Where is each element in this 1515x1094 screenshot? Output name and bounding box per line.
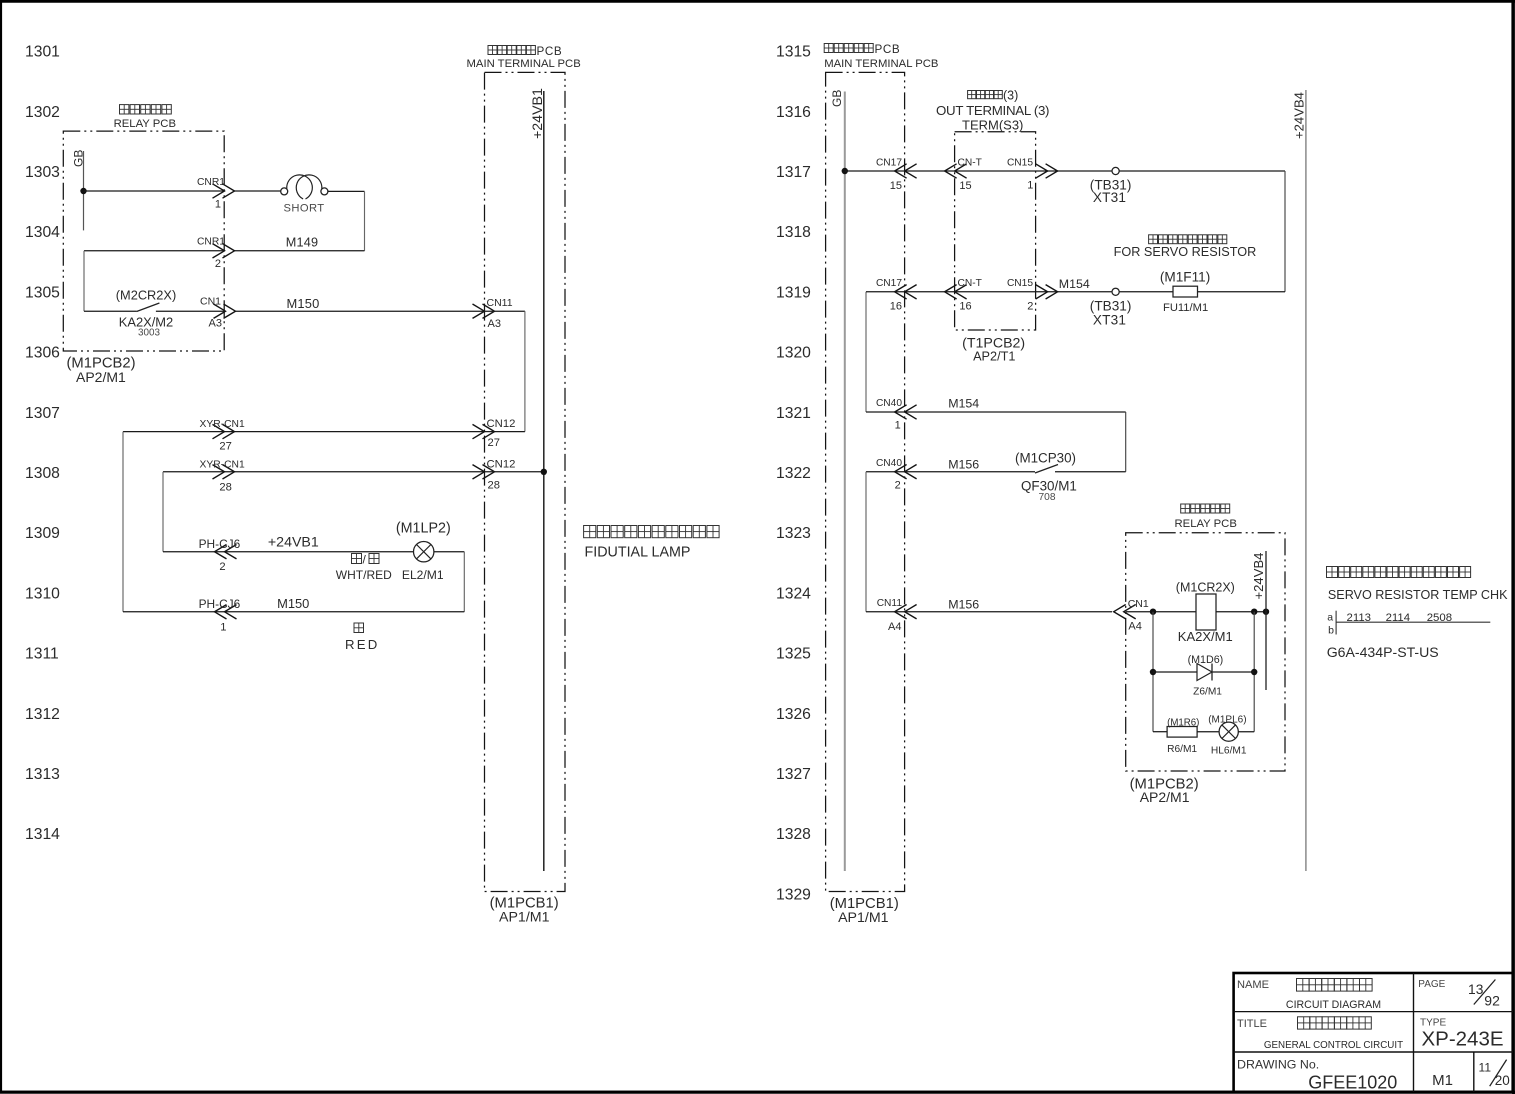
svg-text:TITLE: TITLE [1237,1018,1267,1030]
wire riser CN40-2 to CN11-A4 [865,472,867,612]
svg-text:CN11: CN11 [877,598,903,609]
wire SHORT to M149 loop [235,191,365,250]
relay contact KA2X/M2 (M2CR2X) [116,288,176,339]
wire GB to CNR1 pin 1 [84,190,225,192]
svg-text:1320: 1320 [776,345,811,362]
svg-text:CN1: CN1 [1128,598,1149,610]
connector pin CN12-28 [473,458,516,491]
junction nodes diode row [1150,669,1156,675]
svg-text:(M1CP30): (M1CP30) [1015,451,1076,466]
svg-text:M1: M1 [1432,1072,1453,1089]
svg-text:(TB31): (TB31) [1090,299,1132,314]
relay coil KA2X/M1 (M1CR2X) [1176,581,1235,645]
junction node coil left [1150,609,1156,615]
lamp HL6/M1 (M1PL6) [1208,715,1247,757]
svg-text:1310: 1310 [25,585,60,602]
svg-text:PAGE: PAGE [1418,979,1445,990]
resistor R6/M1 (M1R6) [1167,718,1199,756]
svg-text:CN15: CN15 [1007,158,1033,169]
wire CN1-A4 to relay coil [1126,611,1196,613]
svg-text:CN12: CN12 [487,418,516,430]
svg-text:AP2/T1: AP2/T1 [973,350,1015,364]
power bus +24VB4 (relay pcb) [1251,551,1266,690]
svg-text:16: 16 [959,301,971,313]
svg-text:GENERAL CONTROL CIRCUIT: GENERAL CONTROL CIRCUIT [1264,1040,1403,1051]
svg-text:2: 2 [215,258,221,270]
svg-text:M156: M156 [948,458,979,472]
svg-text:KA2X/M1: KA2X/M1 [1178,629,1233,644]
svg-text:G6A-434P-ST-US: G6A-434P-ST-US [1327,644,1439,660]
svg-text:HL6/M1: HL6/M1 [1211,746,1247,757]
svg-text:1324: 1324 [776,585,811,602]
svg-text:2: 2 [895,480,901,492]
svg-text:1: 1 [895,420,901,432]
wire diode row [1153,671,1254,673]
svg-text:SERVO RESISTOR TEMP CHK: SERVO RESISTOR TEMP CHK [1328,588,1508,602]
svg-text:(M2CR2X): (M2CR2X) [116,288,176,303]
svg-text:CN11: CN11 [487,297,513,309]
svg-text:1319: 1319 [776,284,811,301]
connector pin CN1-A4 (relay pcb) [1114,598,1149,633]
junction nodes coil right [1251,609,1257,615]
wire coil to +24VB4 [1216,611,1266,613]
svg-text:CN17: CN17 [876,158,902,169]
svg-text:PH-CJ6: PH-CJ6 [199,597,241,611]
svg-text:MAIN TERMINAL PCB: MAIN TERMINAL PCB [824,58,938,70]
svg-text:FU11/M1: FU11/M1 [1163,302,1208,314]
svg-text:PH-CJ6: PH-CJ6 [199,537,241,551]
svg-text:XYR-CN1: XYR-CN1 [200,459,245,470]
color label red [345,623,379,652]
power bus GB (right) [830,90,845,871]
svg-text:SHORT: SHORT [284,203,325,215]
wire lamp to down-link [434,552,464,612]
svg-text:CN-T: CN-T [958,158,982,169]
wire resistor to lamp [1197,731,1219,733]
svg-text:1: 1 [220,622,226,634]
fuse FU11/M1 (M1F11) [1160,270,1210,315]
svg-text:1306: 1306 [25,345,60,362]
svg-text:A3: A3 [209,318,222,330]
svg-text:CN-T: CN-T [958,278,982,289]
svg-text:XT31: XT31 [1093,313,1126,328]
svg-text:2: 2 [219,561,225,573]
wire XT31 to fuse [1119,291,1173,293]
svg-text:A3: A3 [488,318,501,330]
jumper plug SHORT [281,175,328,215]
relay PCB board boundary AP2/M1 (left) [63,105,224,385]
svg-text:1329: 1329 [776,886,811,903]
svg-text:1317: 1317 [776,164,811,181]
main terminal PCB boundary AP1/M1 (left) [467,45,581,926]
svg-text:1322: 1322 [776,465,811,482]
wire riser to CN17-16 [866,292,1112,412]
svg-text:92: 92 [1484,993,1500,1009]
svg-text:RED: RED [345,637,379,652]
svg-text:20: 20 [1495,1073,1510,1088]
svg-text:AP2/M1: AP2/M1 [1140,789,1190,805]
svg-text:1326: 1326 [776,706,811,723]
wire resistor row [1153,731,1167,733]
svg-text:AP2/M1: AP2/M1 [76,369,126,385]
svg-text:1: 1 [215,199,221,211]
wire lamp to right riser [1238,731,1254,733]
svg-text:OUT TERMINAL (3): OUT TERMINAL (3) [936,103,1049,118]
junction node GB/CNR1-1 [80,188,86,194]
svg-text:CN12: CN12 [487,458,516,470]
svg-text:CN40: CN40 [876,458,902,469]
svg-text:DRAWING No.: DRAWING No. [1237,1058,1319,1072]
svg-text:CNR1: CNR1 [197,177,225,188]
svg-text:1313: 1313 [25,766,60,783]
wire M150 CN1-A3 to CN11-A3 [236,310,485,312]
title block [1234,973,1513,1093]
svg-text:13: 13 [1468,982,1484,997]
connector pin CN11-A4 [877,598,917,633]
svg-text:1311: 1311 [25,646,59,663]
wire fuse to riser row1319 [1198,291,1286,293]
svg-text:1307: 1307 [25,405,60,422]
svg-text:M154: M154 [1059,277,1090,291]
svg-text:NAME: NAME [1237,979,1269,991]
svg-text:1318: 1318 [776,224,811,241]
svg-text:+24VB4: +24VB4 [1292,92,1307,139]
svg-text:(M1LP2): (M1LP2) [396,521,451,537]
svg-text:M150: M150 [277,596,309,611]
wire CN11-A4 to relay pcb CN1-A4 [866,611,1112,613]
svg-text:CNR1: CNR1 [197,237,225,248]
svg-text:GFEE1020: GFEE1020 [1308,1073,1397,1093]
svg-text:2: 2 [1027,301,1033,313]
svg-text:CN40: CN40 [876,398,902,409]
annotation for servo resistor [1114,235,1257,259]
svg-text:a: a [1327,612,1333,624]
connector pin CN40-1 [876,398,917,432]
svg-text:CN15: CN15 [1007,278,1033,289]
svg-text:15: 15 [890,180,902,192]
connector pin CN17-16 [876,278,917,313]
svg-text:MAIN TERMINAL PCB: MAIN TERMINAL PCB [467,58,581,70]
svg-text:A4: A4 [888,621,901,633]
svg-text:PCB: PCB [537,45,563,58]
connector pin CN-T-16 [945,278,982,313]
annotation fidutial lamp [584,526,720,561]
wire contact to CN1-A3 [156,310,225,312]
wire CNR1-2 into relay contact [84,251,225,311]
breaker contact QF30/M1 (M1CP30) [1015,451,1077,504]
svg-text:1302: 1302 [25,104,60,121]
svg-text:+24VB1: +24VB1 [268,535,319,551]
connector pin CN40-2 [876,458,917,492]
connector pin XYR-CN1-28 [200,459,245,493]
lamp EL2/M1 (M1LP2) fidutial lamp [336,521,451,583]
wire XT31 to right riser row1317 [1119,171,1285,292]
svg-text:16: 16 [890,301,902,313]
svg-text:(M1R6): (M1R6) [1167,718,1199,729]
svg-text:RELAY PCB: RELAY PCB [1175,518,1237,530]
svg-text:1328: 1328 [776,826,811,843]
svg-text:Z6/M1: Z6/M1 [1193,687,1222,698]
svg-text:1309: 1309 [25,525,60,542]
svg-text:1304: 1304 [25,224,60,241]
svg-text:PCB: PCB [875,43,901,56]
svg-text:1325: 1325 [776,646,811,663]
svg-text:28: 28 [219,482,231,494]
svg-text:(M1D6): (M1D6) [1188,654,1224,666]
node row-labels 1315-1329 [776,44,811,904]
connector pin CN17-15 [876,158,917,193]
power bus +24VB1 [530,88,546,871]
wire M150 return to PH-CJ6-1 [123,611,464,613]
svg-text:1314: 1314 [25,826,60,843]
svg-text:2114: 2114 [1386,612,1411,624]
svg-text:CN17: CN17 [876,278,902,289]
svg-text:A4: A4 [1128,621,1141,633]
svg-text:1303: 1303 [25,164,60,181]
svg-text:1315: 1315 [776,44,811,61]
svg-text:TERM(S3): TERM(S3) [962,118,1023,133]
svg-text:(M1CR2X): (M1CR2X) [1176,581,1235,595]
svg-text:AP1/M1: AP1/M1 [499,910,550,926]
wire CN40-1 M154 loop [866,412,1126,472]
svg-text:XT31: XT31 [1093,190,1126,205]
svg-text:11: 11 [1479,1061,1492,1075]
svg-text:3003: 3003 [138,327,160,338]
svg-text:2113: 2113 [1347,612,1372,624]
svg-text:CIRCUIT DIAGRAM: CIRCUIT DIAGRAM [1286,999,1381,1011]
svg-text:1305: 1305 [25,284,60,301]
svg-text:27: 27 [488,437,500,449]
connector pin XYR-CN1-27 [200,419,245,453]
svg-text:28: 28 [488,480,500,492]
wire riser 28 to PH-CJ6-2 [162,472,164,552]
svg-text:2508: 2508 [1427,612,1452,624]
svg-text:27: 27 [219,441,231,453]
svg-text:1308: 1308 [25,465,60,482]
svg-text:RELAY PCB: RELAY PCB [114,118,176,130]
terminal XT31 row1319 (TB31) [1090,288,1132,327]
svg-text:(M1PL6): (M1PL6) [1208,715,1246,726]
svg-text:1301: 1301 [25,44,60,61]
svg-text:1321: 1321 [776,405,811,422]
connector pin CNR1-2 [197,237,235,271]
svg-text:GB: GB [830,90,844,107]
wire CN11-A3 to CN12-27 internal [485,311,525,431]
svg-text:1: 1 [1027,180,1033,192]
junction node GB row1317 [842,168,848,174]
wire left riser 27 to PH-CJ6-1 [122,432,124,612]
connector pin CN12-27 [473,418,516,449]
relay PCB boundary AP2/M1 (right) [1126,504,1285,805]
svg-text:M156: M156 [948,597,979,611]
svg-text:WHT/RED: WHT/RED [336,568,392,582]
connector pin CN15-1 [1007,158,1058,192]
annotation servo resistor temp chk [1327,567,1509,661]
diode Z6/M1 (M1D6) [1188,654,1224,698]
out terminal TERM(S3) boundary [936,89,1049,364]
svg-text:CN1: CN1 [200,295,221,307]
svg-text:1327: 1327 [776,766,811,783]
wire XYR-CN1-27 to CN12-27 [123,431,485,433]
connector pin CN15-2 [1007,278,1058,313]
svg-text:+24VB4: +24VB4 [1251,553,1266,600]
svg-text:1323: 1323 [776,525,811,542]
node row-labels 1301-1314 [25,44,60,844]
svg-text:FOR SERVO RESISTOR: FOR SERVO RESISTOR [1114,245,1257,259]
svg-text:1316: 1316 [776,104,811,121]
junction node on +24VB1 [541,469,547,475]
svg-text:M150: M150 [286,296,319,311]
svg-text:15: 15 [959,180,971,192]
connector pin CNR1-1 [197,177,235,211]
svg-text:XYR-CN1: XYR-CN1 [200,419,245,430]
svg-text:b: b [1328,625,1334,637]
connector pin CN1-A3 (relay pcb) [200,295,236,329]
svg-text:M149: M149 [286,235,319,249]
wire XYR-CN1-28 to CN12-28 [163,471,485,473]
svg-text:708: 708 [1039,492,1056,503]
svg-text:EL2/M1: EL2/M1 [402,568,444,582]
wire CN12-28 to +24VB1 bus [485,471,544,473]
main terminal PCB boundary AP1/M1 (right) [824,43,938,926]
svg-text:FIDUTIAL LAMP: FIDUTIAL LAMP [585,544,691,560]
svg-text:AP1/M1: AP1/M1 [838,910,889,926]
svg-text:1312: 1312 [25,706,60,723]
svg-text:(M1F11): (M1F11) [1160,270,1210,285]
connector pin CN-T-15 [945,158,982,193]
svg-text:R6/M1: R6/M1 [1167,744,1197,755]
power bus +24VB4 (right margin) [1292,90,1307,871]
svg-text:XP-243E: XP-243E [1421,1028,1503,1051]
terminal XT31 row1317 (TB31) [1090,167,1132,205]
wire riser left branch [1152,612,1154,732]
connector pin PH-CJ6-1 [199,597,241,634]
connector pin PH-CJ6-2 [199,537,241,573]
svg-text:(3): (3) [1003,89,1018,103]
wire QF30 to CN40-2 [866,471,1126,473]
wire CNR1-1 to SHORT plug [235,190,281,192]
net GB (left) [72,150,86,231]
connector pin CN11-A3 (main terminal) [473,297,513,330]
wire +24VB1 lead to lamp EL2/M1 [163,551,414,553]
wire GB to XT31 row1317 [845,170,1112,172]
svg-text:M154: M154 [948,397,979,411]
wire riser right branch [1253,612,1255,732]
